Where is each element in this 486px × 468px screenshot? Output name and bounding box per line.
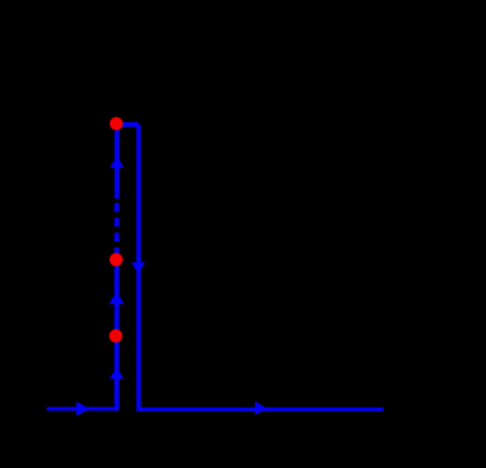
arrow down on right vertical — [131, 262, 145, 273]
arrow up 2 on left vertical — [109, 292, 124, 304]
arrow up 1 on left vertical — [110, 156, 124, 168]
wire: real axis left segment — [48, 407, 117, 411]
pole dot middle — [110, 253, 123, 266]
wire: top bridge segment — [117, 122, 139, 127]
wire: right vertical segment — [136, 125, 141, 411]
wire: left vertical solid lower segment — [114, 253, 119, 411]
wire: left vertical solid upper segment — [115, 124, 120, 199]
arrow right on axis right segment — [255, 401, 267, 415]
arrow right on axis left segment — [76, 402, 90, 416]
pole dot top — [110, 117, 123, 130]
arrow up 3 on left vertical — [110, 367, 124, 379]
pole dot bottom — [109, 329, 122, 342]
wire: real axis right segment — [136, 407, 383, 411]
wire: left vertical dashed segment — [114, 203, 119, 253]
